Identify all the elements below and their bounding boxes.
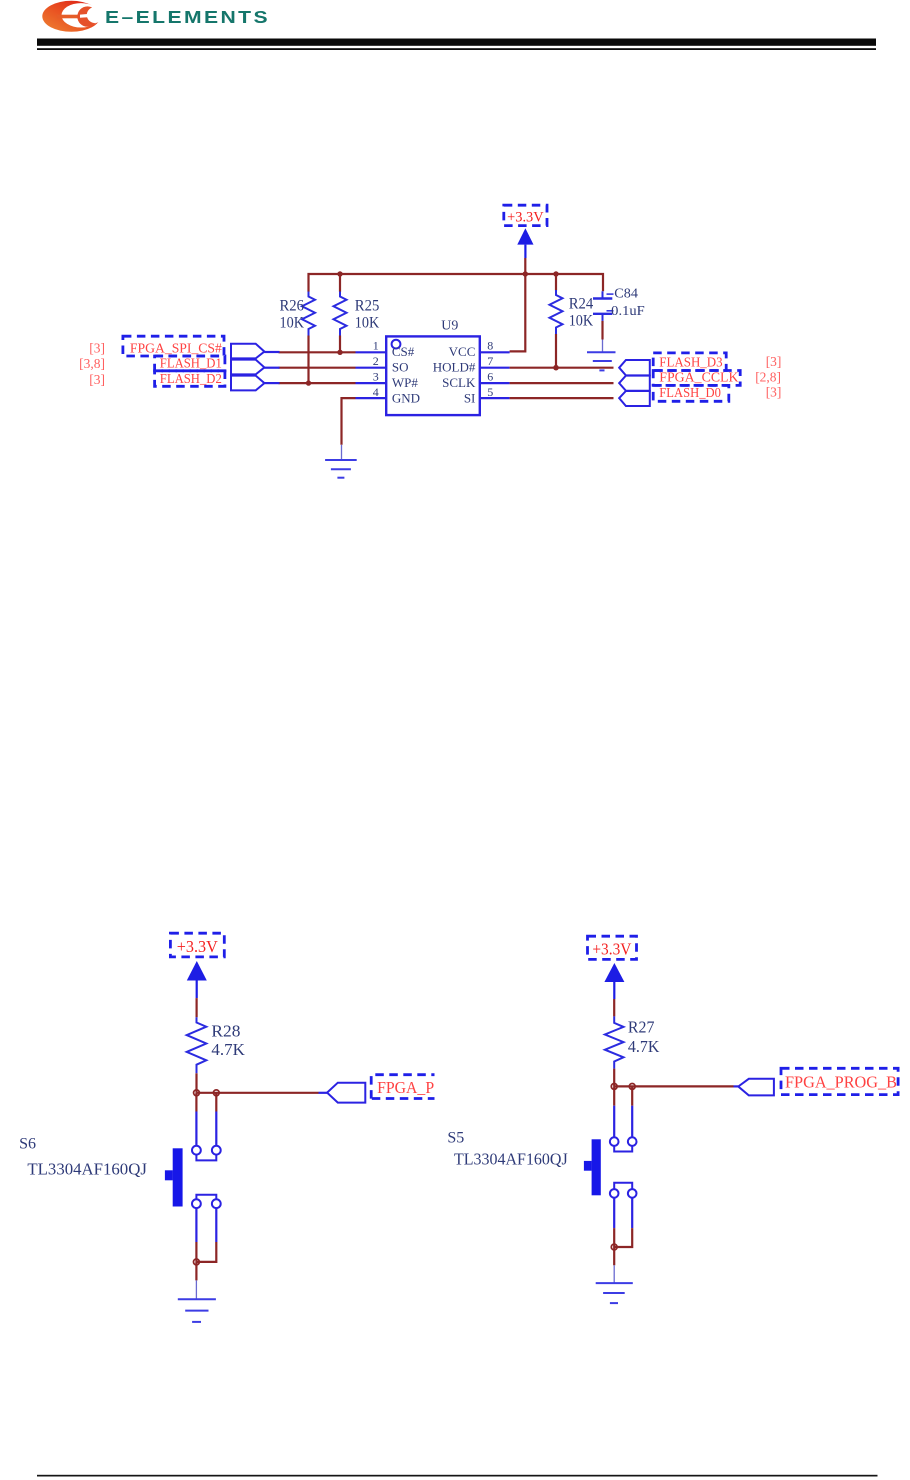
resistor R28 bbox=[187, 1017, 207, 1073]
wire row5 SI bbox=[510, 397, 614, 399]
svg-text:+3.3V: +3.3V bbox=[177, 937, 219, 956]
wire port3 tip to row3 bbox=[264, 382, 279, 384]
svg-text:[3,8]: [3,8] bbox=[79, 356, 105, 371]
wire row7 HOLD# bbox=[510, 367, 614, 369]
wire port1 tip to row1 bbox=[264, 351, 279, 353]
ground S5 bbox=[596, 1265, 633, 1303]
switch S6 lower wires bbox=[194, 1208, 217, 1280]
svg-text:10K: 10K bbox=[355, 314, 380, 331]
dashed box FLASH_D1 bbox=[155, 356, 225, 371]
svg-text:FPGA_SPI_CS#: FPGA_SPI_CS# bbox=[130, 340, 222, 355]
dashed box FLASH_D3 bbox=[653, 353, 726, 371]
svg-text:[3]: [3] bbox=[89, 340, 105, 355]
svg-text:10K: 10K bbox=[280, 314, 305, 331]
capacitor C84 bbox=[593, 286, 645, 321]
switch S6 button bbox=[165, 1148, 183, 1206]
svg-text:FLASH_D2: FLASH_D2 bbox=[160, 371, 222, 386]
wire S6 node row bbox=[197, 1092, 319, 1094]
pin numbers right bbox=[487, 339, 493, 399]
svg-text:R24: R24 bbox=[569, 296, 594, 313]
logo E-ELEMENTS bbox=[42, 1, 103, 32]
dashed box FPGA_P open right bbox=[371, 1075, 434, 1099]
wire S5 power to R27 bbox=[613, 999, 615, 1016]
ground under U9 bbox=[325, 445, 357, 478]
switch S6 upper contacts bbox=[192, 1146, 221, 1161]
power arrow S5 bbox=[604, 963, 624, 999]
wire row1 CS# bbox=[279, 351, 356, 353]
wire port2 tip to row2 bbox=[264, 367, 279, 369]
svg-text:FLASH_D0: FLASH_D0 bbox=[659, 385, 721, 400]
wire R26 bottom to WP# row bbox=[307, 336, 309, 384]
wire R28 bottom to node bbox=[195, 1073, 197, 1093]
port FPGA_PROG_B (S5) bbox=[738, 1079, 774, 1096]
svg-text:S6: S6 bbox=[19, 1136, 36, 1153]
wire R25 top bbox=[339, 274, 341, 292]
svg-text:FPGA_P: FPGA_P bbox=[377, 1078, 434, 1097]
svg-text:TL3304AF160QJ: TL3304AF160QJ bbox=[454, 1150, 568, 1169]
dashed box FPGA_CCLK bbox=[653, 371, 740, 386]
wire R24 bottom to HOLD# row bbox=[555, 334, 557, 368]
svg-text:FPGA_CCLK: FPGA_CCLK bbox=[659, 370, 738, 385]
node junction S6 right bbox=[213, 1090, 219, 1096]
node junction power bbox=[523, 271, 528, 276]
header rule thick bbox=[37, 39, 876, 46]
wire S6 power to R28 bbox=[196, 998, 198, 1017]
svg-text:7: 7 bbox=[487, 354, 493, 368]
svg-text:FLASH_D3: FLASH_D3 bbox=[659, 354, 723, 369]
node junction R25 top bbox=[337, 271, 342, 276]
dashed box FPGA_PROG_B bbox=[781, 1068, 898, 1094]
port FLASH_D0 bbox=[619, 391, 650, 406]
svg-text:TL3304AF160QJ: TL3304AF160QJ bbox=[27, 1159, 147, 1178]
wire C84 bottom bbox=[601, 321, 603, 340]
power +3.3V U9 dashed box bbox=[504, 205, 547, 225]
wire R27 bottom to node bbox=[613, 1069, 615, 1087]
switch S6 lower contacts bbox=[192, 1195, 221, 1208]
dashed box FPGA_SPI_CS# bbox=[123, 336, 224, 356]
port FPGA_CCLK bbox=[619, 376, 650, 391]
svg-text:6: 6 bbox=[487, 370, 493, 384]
svg-text:[3]: [3] bbox=[89, 372, 105, 387]
node junction HOLD#-R24 bbox=[553, 365, 558, 370]
svg-text:GND: GND bbox=[392, 390, 420, 405]
svg-text:FLASH_D1: FLASH_D1 bbox=[160, 356, 222, 371]
svg-text:3: 3 bbox=[373, 370, 379, 384]
power arrow U9 bbox=[517, 228, 533, 258]
wire S5 node row bbox=[614, 1085, 733, 1087]
svg-text:SO: SO bbox=[392, 360, 409, 375]
svg-text:CS#: CS# bbox=[392, 344, 415, 359]
svg-text:5: 5 bbox=[487, 385, 493, 399]
svg-text:8: 8 bbox=[487, 339, 493, 353]
port FLASH_D2 bbox=[231, 376, 264, 391]
svg-text:S5: S5 bbox=[447, 1130, 464, 1147]
svg-text:+3.3V: +3.3V bbox=[507, 210, 544, 226]
svg-text:[2,8]: [2,8] bbox=[755, 369, 781, 384]
node junction S6 left bbox=[194, 1090, 200, 1096]
wire row2 SO bbox=[279, 367, 356, 369]
dashed box FLASH_D0 bbox=[653, 385, 729, 401]
svg-text:R26: R26 bbox=[280, 297, 305, 314]
pin 1 dot circle bbox=[392, 340, 401, 349]
resistor R24 bbox=[550, 290, 563, 334]
svg-text:0.1uF: 0.1uF bbox=[611, 303, 645, 318]
svg-text:[3]: [3] bbox=[766, 354, 782, 369]
svg-text:R27: R27 bbox=[628, 1017, 655, 1036]
svg-text:2: 2 bbox=[373, 354, 379, 368]
power +3.3V S5 dashed box bbox=[588, 936, 637, 959]
node junction R24 top bbox=[553, 271, 558, 276]
svg-text:E–ELEMENTS: E–ELEMENTS bbox=[105, 7, 270, 27]
svg-text:4.7K: 4.7K bbox=[211, 1040, 245, 1059]
port FLASH_D1 bbox=[231, 360, 264, 375]
svg-text:HOLD#: HOLD# bbox=[433, 360, 476, 375]
svg-text:10K: 10K bbox=[569, 313, 594, 330]
svg-text:R25: R25 bbox=[355, 297, 380, 314]
wire GND pin4 corner bbox=[342, 398, 356, 445]
svg-text:R28: R28 bbox=[211, 1022, 240, 1041]
switch S5 upper contacts bbox=[610, 1137, 637, 1151]
svg-text:[3]: [3] bbox=[766, 385, 782, 400]
ground S6 bbox=[178, 1280, 216, 1322]
wire R25 bottom to CS# row bbox=[339, 336, 341, 353]
svg-text:WP#: WP# bbox=[392, 375, 419, 390]
svg-text:4: 4 bbox=[373, 385, 379, 399]
node junction S5 right bbox=[629, 1084, 635, 1090]
switch S6 upper wires bbox=[196, 1093, 216, 1146]
svg-text:SCLK: SCLK bbox=[442, 375, 476, 390]
sheet refs right bbox=[755, 354, 781, 400]
switch S5 lower contacts bbox=[610, 1183, 637, 1198]
svg-text:4.7K: 4.7K bbox=[628, 1037, 660, 1056]
chip pin stubs right bbox=[480, 352, 510, 398]
svg-text:FPGA_PROG_B: FPGA_PROG_B bbox=[785, 1073, 897, 1092]
ground under C84 bbox=[587, 340, 616, 371]
footer rule bbox=[37, 1475, 878, 1477]
wire row6 SCLK bbox=[510, 382, 614, 384]
switch S5 button bbox=[584, 1139, 601, 1195]
chip pin names left bbox=[392, 344, 420, 405]
port FPGA_P (S6) bbox=[327, 1083, 365, 1103]
power arrow S6 bbox=[187, 961, 207, 998]
svg-text:C84: C84 bbox=[614, 286, 638, 301]
power +3.3V S6 dashed box bbox=[170, 933, 224, 957]
header rule thin bbox=[37, 48, 876, 50]
port FLASH_D3 bbox=[619, 360, 650, 375]
pin numbers left bbox=[373, 339, 379, 399]
node junction S5 left bbox=[611, 1084, 617, 1090]
resistor R26 bbox=[302, 292, 315, 336]
switch S5 lower wires bbox=[611, 1198, 632, 1266]
svg-text:U9: U9 bbox=[441, 318, 458, 333]
dashed box FLASH_D2 bbox=[155, 371, 225, 387]
svg-text:+3.3V: +3.3V bbox=[592, 940, 632, 959]
wire top rail bbox=[309, 274, 604, 292]
wire row3 WP# bbox=[279, 382, 356, 384]
sheet refs left bbox=[79, 340, 105, 387]
wire power stem down to pin8 bbox=[510, 258, 526, 351]
svg-text:VCC: VCC bbox=[449, 344, 476, 359]
chip pin stubs left bbox=[356, 352, 387, 398]
resistor R25 bbox=[334, 292, 347, 336]
switch S5 upper wires bbox=[614, 1086, 632, 1137]
svg-text:1: 1 bbox=[373, 339, 379, 353]
chip U9 box bbox=[386, 336, 480, 415]
resistor R27 bbox=[605, 1016, 624, 1068]
svg-text:SI: SI bbox=[464, 390, 476, 405]
wire R24 top bbox=[555, 274, 557, 290]
chip pin names right bbox=[433, 344, 476, 405]
port FPGA_SPI_CS# bbox=[231, 344, 264, 359]
